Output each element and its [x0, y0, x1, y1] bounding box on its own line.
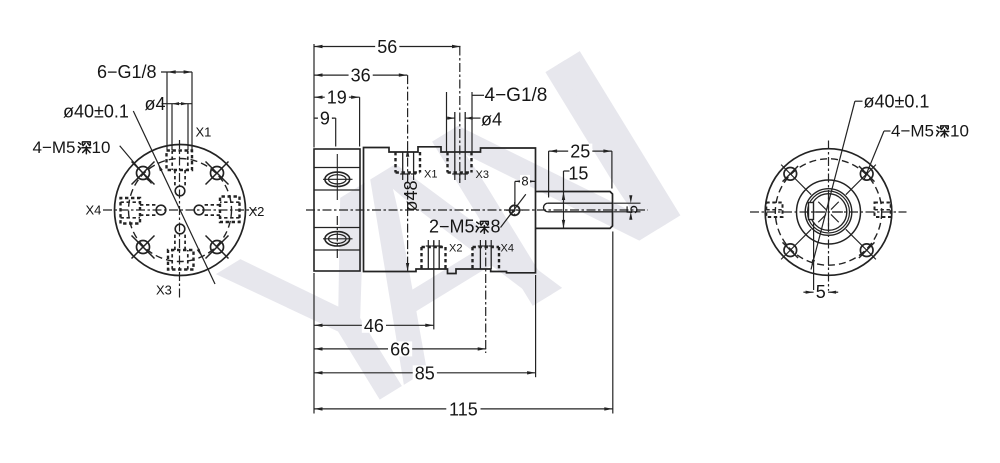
- svg-text:ø40±0.1: ø40±0.1: [63, 102, 129, 122]
- svg-text:4−M5: 4−M5: [891, 121, 934, 140]
- svg-text:X2: X2: [249, 204, 265, 219]
- svg-text:X3: X3: [156, 283, 172, 298]
- svg-text:9: 9: [320, 109, 330, 129]
- svg-text:66: 66: [390, 339, 410, 359]
- svg-text:56: 56: [377, 37, 397, 57]
- svg-text:8: 8: [521, 174, 528, 189]
- svg-text:8: 8: [491, 217, 501, 237]
- svg-text:X1: X1: [424, 169, 437, 181]
- svg-text:X2: X2: [449, 243, 462, 255]
- svg-text:115: 115: [449, 399, 478, 419]
- svg-text:ø4: ø4: [481, 109, 502, 129]
- svg-text:46: 46: [364, 316, 384, 336]
- svg-text:10: 10: [92, 138, 111, 157]
- svg-text:6−G1/8: 6−G1/8: [97, 62, 157, 82]
- svg-text:10: 10: [950, 121, 969, 140]
- svg-text:36: 36: [351, 66, 371, 86]
- svg-text:15: 15: [568, 163, 588, 183]
- svg-text:5: 5: [816, 282, 826, 302]
- svg-text:19: 19: [327, 88, 347, 108]
- svg-text:X3: X3: [476, 169, 489, 181]
- svg-text:X4: X4: [501, 243, 514, 255]
- svg-text:ø40±0.1: ø40±0.1: [864, 92, 930, 112]
- svg-text:25: 25: [570, 142, 590, 162]
- svg-text:4−G1/8: 4−G1/8: [485, 85, 548, 106]
- svg-text:85: 85: [415, 363, 435, 383]
- svg-text:X4: X4: [86, 203, 102, 218]
- svg-text:2−M5: 2−M5: [429, 217, 475, 237]
- svg-text:ø4: ø4: [145, 94, 166, 114]
- svg-text:5: 5: [625, 205, 642, 214]
- svg-text:ø48: ø48: [401, 180, 421, 211]
- svg-text:X1: X1: [196, 125, 212, 140]
- svg-text:4−M5: 4−M5: [33, 138, 76, 157]
